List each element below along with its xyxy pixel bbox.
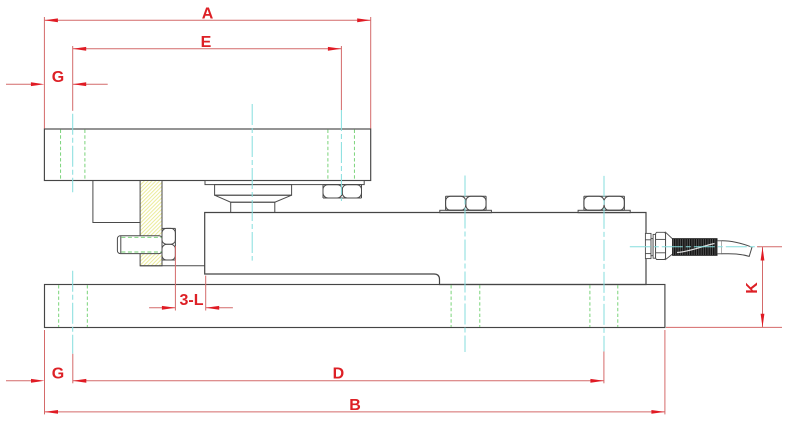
cable gland cone: [666, 232, 674, 259]
body mounting nut 2 washer: [578, 210, 630, 212]
horizontal bolt shaft: [117, 236, 162, 254]
dimension G bottom: [6, 380, 31, 382]
load cell body: [205, 213, 646, 285]
dimension E: [73, 46, 342, 111]
hatched loading stand column (section): [140, 181, 162, 266]
svg-text:G: G: [52, 366, 64, 383]
top plate right hole hidden lines: [328, 130, 355, 180]
load button strip under plate: [205, 181, 364, 185]
bottom plate: [45, 285, 665, 328]
dimension 3-L: [149, 246, 233, 311]
cable end: [722, 241, 752, 257]
centerline cable: [630, 246, 760, 248]
svg-text:B: B: [349, 397, 361, 414]
body mounting nut 1: [446, 196, 487, 210]
cable gland hex nut: [656, 232, 666, 259]
top plate left hole hidden lines: [61, 130, 85, 180]
centerline right hole top plate: [340, 110, 342, 201]
top plate: [44, 129, 370, 181]
bolt head chamfer line: [120, 236, 122, 253]
hanging nut under top plate right hole: [323, 185, 362, 198]
svg-text:3-L: 3-L: [180, 292, 204, 309]
stand bottom edge to body: [140, 265, 205, 267]
dimension A: [44, 17, 370, 129]
bolt thread hidden lines: [121, 237, 161, 252]
centerline body bolt 2: [603, 176, 605, 352]
cable braided section: [673, 239, 718, 256]
cable collar: [717, 241, 722, 254]
svg-text:G: G: [52, 69, 64, 86]
svg-text:D: D: [333, 366, 345, 383]
svg-text:E: E: [201, 34, 212, 51]
dimension B: [45, 330, 665, 414]
body mounting nut 2: [584, 196, 625, 210]
braid highlight: [677, 244, 715, 253]
dimension G top: [6, 83, 108, 85]
dimension D: [73, 352, 604, 384]
cable gland stud: [645, 233, 655, 258]
step block under plate: [93, 181, 140, 223]
bottom plate hidden hole lines: [59, 285, 618, 327]
dimension K: [666, 247, 782, 328]
centerline left hole top plate: [73, 104, 760, 354]
svg-text:A: A: [202, 5, 214, 22]
load button chamfer trapezoid: [215, 195, 292, 202]
load button flange: [215, 185, 292, 196]
bolt nut (side view): [162, 228, 175, 260]
body mounting nut 1 washer: [440, 210, 492, 212]
svg-text:K: K: [744, 282, 761, 294]
load button stem: [231, 202, 275, 212]
centerline body bolt 1: [464, 176, 466, 353]
centerline load button: [251, 104, 253, 261]
